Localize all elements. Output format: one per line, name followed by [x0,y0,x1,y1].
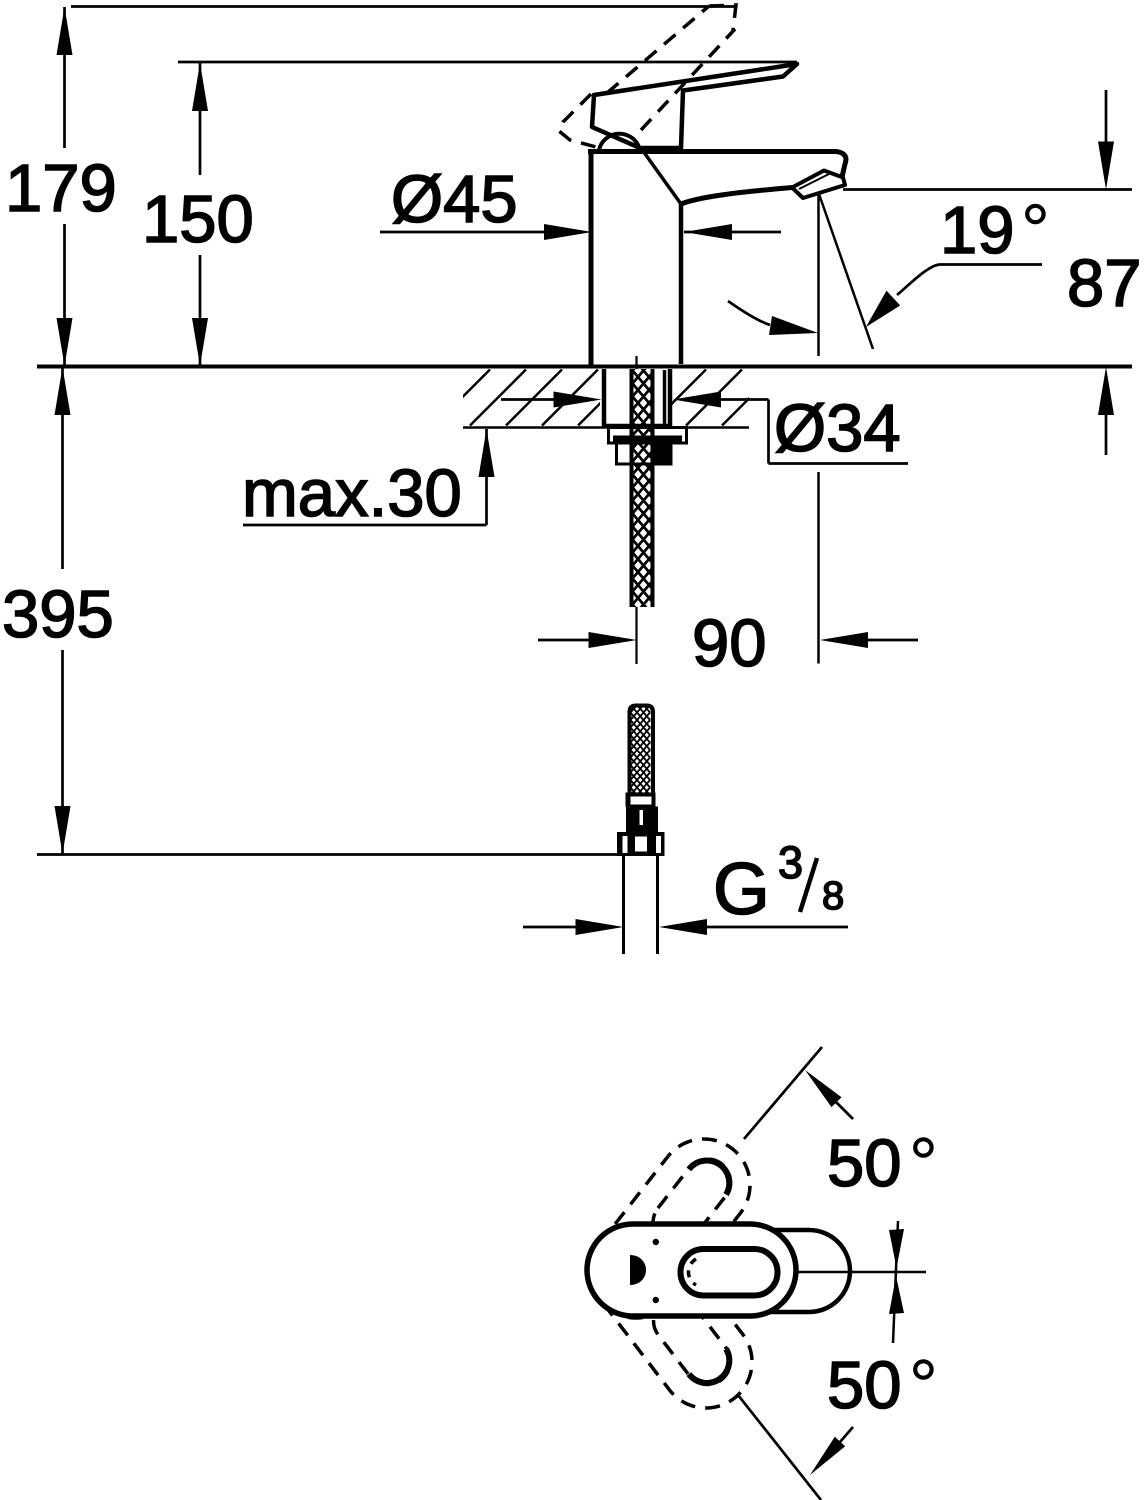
svg-text:max.30: max.30 [242,456,462,531]
svg-text:G: G [713,849,770,930]
svg-text:8: 8 [822,874,844,918]
svg-text:179: 179 [5,151,117,226]
svg-text:50: 50 [827,1126,902,1201]
svg-text:Ø45: Ø45 [391,162,518,237]
svg-text:90: 90 [692,606,767,681]
svg-text:150: 150 [142,182,254,257]
svg-text:50: 50 [827,1348,902,1423]
svg-text:395: 395 [2,577,114,652]
svg-text:87: 87 [1067,246,1142,321]
svg-text:Ø34: Ø34 [774,391,901,466]
svg-text:19: 19 [940,193,1015,268]
svg-text:3: 3 [778,837,803,888]
